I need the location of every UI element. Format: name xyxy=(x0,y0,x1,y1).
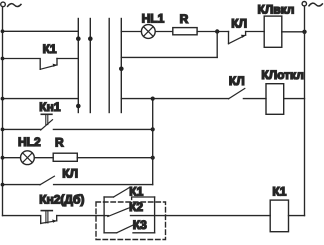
svg-text:Кн2(Дб): Кн2(Дб) xyxy=(39,192,84,206)
contact KL row A fixed tick xyxy=(245,32,247,36)
contact KL row F right wire xyxy=(54,184,153,186)
junction dot row D on left bus xyxy=(1,127,5,131)
transformer winding line 3 xyxy=(108,19,110,113)
coil KLotkl xyxy=(266,84,284,115)
button Kn2 fixed tick xyxy=(56,216,58,221)
contact K1 ladder blade xyxy=(114,187,131,197)
lamp HL2 xyxy=(21,151,35,165)
wire coil KLvkl to right bus xyxy=(282,31,305,33)
svg-text:HL1: HL1 xyxy=(142,11,165,25)
contact K1 row B: fixed tick xyxy=(56,59,58,65)
contact K3 ladder left stub xyxy=(104,232,117,234)
resistor R2 xyxy=(53,153,77,161)
contact K2 ladder left stub xyxy=(104,215,108,217)
junction dot row B on left bus xyxy=(1,57,5,61)
wire lamp HL1 to resistor R1 xyxy=(155,31,173,33)
contact K1 row B: blade with arrow xyxy=(40,65,57,69)
svg-text:КЛ: КЛ xyxy=(229,74,245,88)
svg-text:КЛоткл: КЛоткл xyxy=(261,68,303,82)
AC tilde symbol right xyxy=(309,3,322,6)
button Kn2 wire left row G with step down xyxy=(3,216,41,224)
button Kn1 blade xyxy=(41,120,53,130)
wire row A left xyxy=(3,30,79,32)
coil KLvkl xyxy=(264,16,282,47)
junction dot row A on left bus xyxy=(1,29,5,33)
button Kn1 actuator stem xyxy=(46,114,48,124)
svg-text:К1: К1 xyxy=(43,42,57,56)
junction dot row F on left bus xyxy=(1,183,5,187)
vertical wire V2 junction to row B right xyxy=(216,32,218,58)
contact KL row F left wire xyxy=(3,184,41,186)
wire coil K1 to right bus xyxy=(289,215,305,217)
AC tilde symbol left xyxy=(8,4,21,7)
contact KL row F blade xyxy=(40,176,54,185)
wire row C left xyxy=(3,98,79,100)
junction dot row E on left bus xyxy=(1,156,5,160)
contact KL row A step down xyxy=(228,32,230,44)
button Kn2 actuator stem xyxy=(46,211,48,223)
svg-text:Кн1: Кн1 xyxy=(39,100,61,114)
contact K3 ladder blade xyxy=(117,224,135,232)
relay coil K1 xyxy=(270,200,288,232)
svg-text:R: R xyxy=(180,12,189,26)
contact K1 ladder right stub with tick xyxy=(132,197,155,200)
left bus wire xyxy=(2,7,4,216)
wire resistor R2 to vertical V1 row E xyxy=(77,157,152,159)
AC source terminal right xyxy=(302,2,306,6)
svg-text:К1: К1 xyxy=(272,184,286,198)
wire contact KL to coil KLvkl xyxy=(246,31,265,33)
contact KL row A blade with arrow xyxy=(229,35,246,44)
button Kn1 actuator T-bar xyxy=(41,113,52,115)
button Kn2 actuator T-bar xyxy=(41,210,52,212)
wire lamp HL2 to resistor R2 xyxy=(34,157,53,159)
svg-text:HL2: HL2 xyxy=(18,135,41,149)
button Kn2 blade with arrow xyxy=(41,221,57,224)
svg-text:К1: К1 xyxy=(129,184,143,198)
button Kn2 wire right to ladder xyxy=(57,215,104,217)
wire row C right from line 4 xyxy=(121,98,228,100)
winding dot on line 1 upper xyxy=(76,36,81,41)
wire coil KLotkl to right bus xyxy=(284,98,305,100)
button Kn1 wire right row D xyxy=(53,128,152,130)
contact K1 row B: left wire xyxy=(3,59,41,70)
transformer winding line 4 xyxy=(120,19,122,113)
wire contact KL row C to coil KLotkl xyxy=(243,98,266,100)
svg-text:КЛ: КЛ xyxy=(231,16,247,30)
winding dot on line 4 xyxy=(119,67,124,72)
svg-text:R: R xyxy=(55,135,64,149)
junction dot row A right xyxy=(215,29,219,33)
ladder left rail xyxy=(103,197,105,233)
AC source terminal left xyxy=(1,2,6,7)
junction dot row D on vertical V1 xyxy=(151,127,155,131)
vertical wire V1 from row C to row F xyxy=(152,99,154,185)
junction dot on right bus row A xyxy=(302,30,306,34)
wire row E bus to lamp xyxy=(3,157,21,159)
contact KL row C blade xyxy=(229,89,245,99)
junction dot row C on vertical V1 xyxy=(151,97,155,101)
lamp HL1 xyxy=(141,25,155,39)
resistor R1 xyxy=(173,28,197,35)
svg-text:КЛвкл: КЛвкл xyxy=(258,3,295,17)
transformer winding line 2 xyxy=(89,19,91,113)
contact K3 ladder right stub xyxy=(133,232,155,234)
button Kn1 wire left row D xyxy=(3,128,41,130)
wire row B right from line 4 to V2 xyxy=(121,56,217,58)
wire resistor R1 to junction xyxy=(197,31,228,33)
right bus wire xyxy=(304,6,306,216)
contact K1 ladder left stub xyxy=(104,196,113,198)
wire row A right from line 4 to lamp HL1 xyxy=(121,31,141,33)
transformer winding line 1 xyxy=(77,19,79,113)
winding dot on line 1 lower xyxy=(76,104,81,109)
contact K1 row B: right wire xyxy=(57,58,78,60)
svg-text:КЛ: КЛ xyxy=(62,167,78,181)
dashed remote-contacts box xyxy=(96,202,166,240)
junction dot row E on vertical V1 xyxy=(151,156,155,160)
junction dot row C on left bus xyxy=(1,97,5,101)
contact K2 ladder blade xyxy=(108,208,130,217)
ladder right rail xyxy=(154,197,156,233)
contact K2 through wire to coil K1 xyxy=(131,215,271,217)
winding dot on line 2 upper xyxy=(88,36,93,41)
